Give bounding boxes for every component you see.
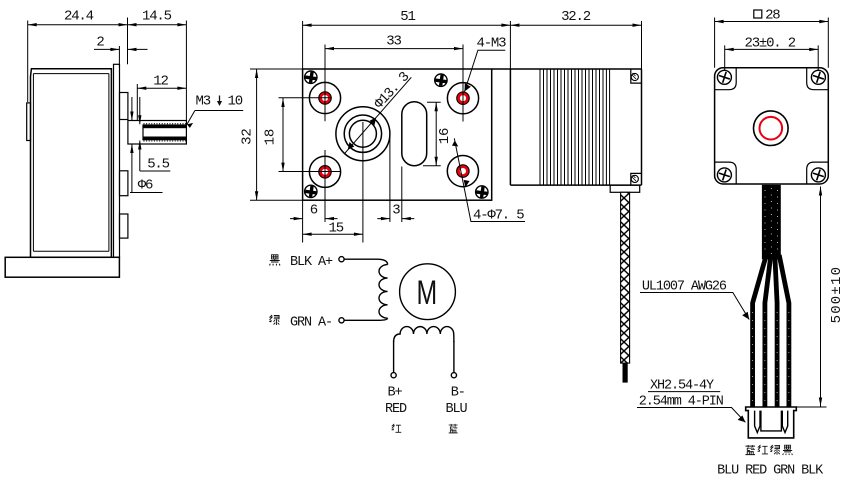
svg-text:33: 33 — [386, 34, 401, 50]
dim 12 line — [137, 87, 186, 89]
svg-text:2: 2 — [96, 35, 104, 51]
ext 51/32.2 — [303, 21, 642, 69]
svg-text:3: 3 — [392, 203, 400, 219]
phi13.3 leader — [344, 77, 411, 154]
ext 16 — [423, 102, 441, 165]
dim 2 arrows/tails — [94, 48, 148, 50]
ext 32 — [250, 69, 303, 200]
svg-text:18: 18 — [263, 129, 279, 145]
svg-text:28: 28 — [765, 8, 780, 24]
thread left end — [142, 124, 144, 140]
dim 33 line — [325, 48, 463, 50]
svg-text:500±10: 500±10 — [829, 266, 845, 324]
svg-text:B-: B- — [451, 386, 465, 401]
shaft boss — [128, 121, 186, 145]
wire center dashes — [753, 312, 789, 404]
flange strip — [114, 64, 120, 257]
svg-text:4-Φ7. 5: 4-Φ7. 5 — [473, 208, 524, 224]
wire B- down — [453, 341, 455, 373]
dim 28 line — [715, 21, 829, 23]
screw LL — [717, 168, 731, 182]
svg-text:15: 15 — [329, 221, 344, 237]
svg-text:12: 12 — [153, 74, 168, 90]
M3 leader — [187, 111, 243, 125]
corner screw TR — [434, 74, 447, 87]
arrow 4-M3 — [465, 83, 471, 91]
4-M3 leader — [465, 50, 506, 91]
hole LL — [309, 156, 340, 187]
motor right edge — [641, 69, 643, 185]
svg-text:4-M3: 4-M3 — [477, 35, 507, 51]
arrows 18 — [281, 98, 284, 107]
wire 2 — [765, 257, 771, 408]
dim 16 line vertical — [435, 102, 437, 165]
arrows 23 — [725, 48, 734, 51]
corner pad UL — [715, 68, 737, 90]
hong / lan — [392, 424, 402, 432]
text lan hong lv hei CJK — [745, 445, 755, 455]
svg-text:M3: M3 — [196, 94, 211, 110]
screw UL — [717, 70, 731, 84]
terminal A+ — [339, 257, 344, 262]
dim 24.4 line — [28, 24, 128, 26]
motor square rear view — [715, 68, 829, 184]
arrow UL1007 leader — [742, 312, 749, 320]
svg-text:XH2.54-4Y: XH2.54-4Y — [650, 379, 714, 394]
5.5 ext+arrow lines — [139, 97, 141, 171]
UL1007 underline + leader — [640, 293, 749, 320]
bundle braid dots — [765, 188, 778, 254]
arrowheads 24.4 — [28, 23, 37, 26]
thread band top — [143, 124, 186, 140]
dim 6 tails — [290, 218, 338, 220]
phi6 ext+arrow lines — [131, 97, 133, 193]
top edge across motor — [492, 68, 642, 70]
LL hole centerline vertical down — [324, 150, 326, 222]
svg-text:BLU: BLU — [446, 402, 468, 417]
top-right notch — [631, 69, 642, 83]
step B — [120, 171, 128, 196]
ext 18 top (UL hole crosshair) — [279, 97, 332, 99]
base plate — [5, 257, 119, 277]
wire bundle — [762, 185, 781, 259]
dim 15 line — [303, 233, 363, 235]
ext slot left down — [401, 167, 403, 223]
body inner wall lines — [33, 69, 113, 258]
ext 18 bottom (LL hole crosshair) — [279, 171, 341, 173]
2.54 underline + leader — [637, 408, 745, 423]
svg-text:M: M — [416, 274, 437, 312]
motor front section edge — [509, 69, 511, 185]
arrowheads 5.5 — [138, 115, 141, 124]
arrows 32.2 — [510, 24, 519, 27]
central circle inner — [349, 120, 376, 147]
dim 500 line — [820, 187, 822, 407]
arrowheads 12 — [137, 87, 146, 90]
hole LR — [447, 156, 478, 187]
label hei BLK A+ — [270, 255, 281, 266]
XH underline — [648, 391, 720, 393]
corner screw BR — [475, 186, 488, 199]
arrowheads phi6 — [130, 112, 133, 121]
4-phi7.5 leader — [454, 138, 525, 221]
ext for 2 — [119, 18, 127, 68]
arrows 500 — [819, 187, 822, 196]
arrows phi13.3 leader — [348, 142, 355, 150]
svg-text:32.2: 32.2 — [561, 9, 591, 25]
dim 14.5 line — [128, 24, 187, 26]
svg-text:5.5: 5.5 — [147, 157, 169, 173]
step C — [120, 214, 128, 238]
svg-text:B+: B+ — [388, 386, 403, 401]
connector U channel — [761, 411, 782, 431]
svg-text:6: 6 — [310, 203, 318, 219]
central circle mid — [344, 115, 381, 152]
wire tip — [623, 363, 628, 383]
center red circle — [760, 117, 783, 140]
notch circle top — [631, 73, 638, 80]
wire A+ to coil — [344, 259, 388, 264]
connector right prong — [782, 411, 787, 433]
ext 28 — [715, 18, 829, 68]
ext 500 bottom — [796, 406, 826, 408]
hole UR — [447, 83, 478, 114]
ext circle right edge down — [389, 134, 391, 222]
ext 33 / hole centerlines vertical — [325, 45, 463, 122]
dim 51 line — [303, 24, 511, 26]
dim 23 line — [725, 48, 819, 50]
arrows 15 — [303, 233, 312, 236]
notch circle bottom — [631, 175, 638, 182]
svg-text:16: 16 — [437, 128, 453, 144]
square28 symbol — [754, 10, 762, 18]
ext 23 — [725, 45, 819, 70]
dim 3 tails — [377, 218, 414, 220]
wire 4 (rightmost) — [779, 255, 789, 408]
coil B (horizontal, bumps up) — [394, 327, 454, 342]
connector left prong — [755, 411, 760, 433]
screw UR — [811, 70, 825, 84]
dim 32.2 line — [510, 24, 641, 26]
arrowhead M3 leader — [187, 123, 193, 128]
dim 32 line vertical — [256, 69, 258, 200]
arrows 16 — [435, 102, 438, 111]
svg-text:24.4: 24.4 — [64, 9, 94, 25]
left tab — [27, 103, 31, 141]
center boss circle — [754, 111, 789, 146]
wire 1 (leftmost) — [753, 255, 767, 408]
motor bottom edge — [510, 184, 641, 186]
braided wire middle view — [621, 192, 630, 363]
wire 3 — [775, 257, 777, 408]
arrows 28 — [715, 20, 724, 23]
screw LR — [811, 168, 825, 182]
svg-text:10: 10 — [228, 94, 243, 110]
svg-text:UL1007 AWG26: UL1007 AWG26 — [642, 280, 727, 295]
ext gearbox left down — [302, 200, 304, 242]
svg-text:GRN A-: GRN A- — [290, 316, 332, 331]
central circle outer — [336, 107, 390, 161]
svg-text:Φ6: Φ6 — [138, 178, 153, 194]
svg-text:32: 32 — [240, 128, 256, 144]
svg-text:BLU RED GRN BLK: BLU RED GRN BLK — [717, 464, 824, 479]
wire exit block — [610, 185, 640, 192]
svg-text:RED: RED — [385, 402, 407, 417]
arrows 33 — [325, 47, 334, 50]
arrows 6 (outside) — [294, 217, 303, 220]
arrowheads 2 (outside) — [110, 48, 119, 51]
dim 18 line vertical — [282, 98, 284, 172]
phi6 label underline — [130, 192, 163, 194]
corner screw BL — [304, 185, 317, 198]
motor fins — [540, 69, 610, 185]
terminal A- — [339, 318, 344, 323]
corner pad UR — [807, 68, 829, 90]
dim 24.4 extension left — [27, 21, 29, 103]
corner pad LR — [807, 162, 829, 184]
wire coil to A- — [344, 318, 388, 320]
svg-text:51: 51 — [400, 9, 415, 25]
corner pad LL — [715, 162, 737, 184]
arrow 2.54 leader — [738, 415, 746, 422]
motor body (side view) — [31, 69, 112, 258]
wire B+ down — [393, 341, 395, 373]
motor circle — [400, 264, 456, 320]
arrows 3 (outside) — [381, 217, 390, 220]
slot obround — [402, 102, 427, 166]
svg-text:BLK A+: BLK A+ — [290, 255, 333, 270]
arrows 32 — [255, 69, 258, 78]
center circle vertical centerline — [362, 122, 364, 243]
label lv GRN A- — [269, 315, 279, 325]
arrows 51 — [303, 24, 312, 27]
connector housing — [746, 407, 797, 438]
coil A (vertical, bumps left) — [379, 265, 388, 319]
svg-text:2.54mm 4-PIN: 2.54mm 4-PIN — [639, 395, 724, 410]
step A — [120, 93, 128, 120]
dim 12 ext — [136, 84, 138, 121]
hole UL — [309, 82, 340, 113]
corner screw TL — [304, 71, 317, 84]
bottom-right notch — [631, 173, 642, 185]
5.5 label underline — [140, 170, 171, 172]
dim 14.5 ext right — [185, 21, 187, 121]
svg-text:14.5: 14.5 — [142, 9, 172, 25]
terminal B- — [451, 373, 456, 378]
arrows 4-phi7.5 — [450, 141, 458, 150]
gearbox plate outline — [303, 69, 492, 200]
svg-text:23±0. 2: 23±0. 2 — [745, 36, 796, 52]
terminal B+ — [391, 373, 396, 378]
